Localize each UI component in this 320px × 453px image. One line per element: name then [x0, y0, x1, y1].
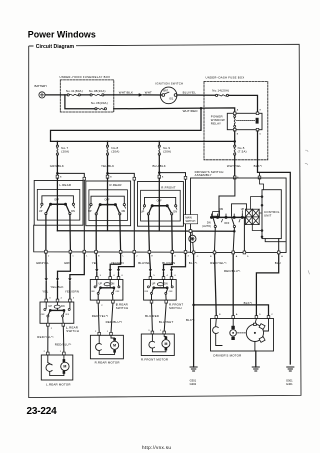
svg-text:DN: DN — [164, 283, 168, 286]
svg-text:5: 5 — [73, 298, 75, 300]
svg-text:OFF: OFF — [169, 291, 174, 293]
driver's switch contacts — [211, 211, 244, 228]
connector pins row — [45, 250, 187, 253]
relay pin B — [233, 128, 236, 131]
off bracket R.REAR — [91, 196, 124, 203]
L.REAR door switch box — [40, 302, 74, 323]
connector arrow col2 bypass — [117, 269, 120, 272]
switch contacts R.REAR — [106, 203, 108, 205]
svg-text:WHT/RED: WHT/RED — [183, 109, 198, 113]
fuse No.41(80A) — [67, 94, 80, 96]
svg-text:C: C — [197, 256, 199, 258]
svg-text:UP: UP — [88, 210, 92, 213]
door switch pins col2 — [96, 277, 120, 280]
svg-text:B: B — [237, 134, 239, 136]
R.FRONT motor M — [164, 334, 166, 336]
svg-text:B: B — [60, 177, 62, 179]
node junction fuse8 branch — [106, 172, 109, 175]
svg-text:4: 4 — [61, 298, 63, 300]
svg-text:OFF: OFF — [157, 200, 162, 203]
wire upper bus from WHT/RED junction — [51, 108, 235, 141]
frame bracket around circuit diagram — [29, 44, 301, 397]
off bracket R.FRONT — [145, 197, 176, 204]
svg-text:OFF: OFF — [116, 291, 121, 293]
fuse No.5 — [234, 145, 236, 155]
svg-text:3: 3 — [148, 330, 150, 332]
svg-text:B: B — [219, 314, 221, 316]
svg-text:B: B — [98, 255, 100, 257]
wire branch down inside under-hood box — [65, 95, 95, 109]
svg-text:(20A): (20A) — [61, 150, 69, 154]
driver's motor pins — [215, 316, 270, 319]
wire col3 left output down — [149, 254, 150, 278]
main switch — [192, 231, 193, 251]
svg-text:D: D — [260, 134, 262, 136]
svg-text:OFF: OFF — [65, 314, 70, 316]
svg-text:RED/BLU*¹: RED/BLU*¹ — [224, 269, 241, 273]
pin on bypass1 — [83, 177, 86, 180]
svg-text:6: 6 — [122, 275, 124, 277]
door switch pins col3 — [149, 277, 173, 280]
connector arrow col2 mid — [109, 269, 112, 272]
driver's switch bar — [211, 216, 246, 218]
svg-text:No.38(30A): No.38(30A) — [91, 101, 108, 105]
svg-text:1: 1 — [60, 351, 62, 353]
svg-text:BLU/YEL: BLU/YEL — [183, 91, 197, 95]
svg-text:OFF: OFF — [224, 222, 229, 225]
svg-text:DN: DN — [71, 210, 75, 213]
svg-text:6: 6 — [175, 275, 177, 277]
connector arrow col3 mid — [162, 269, 165, 272]
svg-text:R.REAR: R.REAR — [110, 183, 122, 187]
pin B box1 — [56, 175, 59, 178]
svg-text:BLU/YEL: BLU/YEL — [138, 261, 150, 265]
svg-text:R.FRONT: R.FRONT — [161, 185, 175, 189]
svg-text:UP: UP — [152, 283, 156, 286]
fuse No.14(20A) — [216, 94, 229, 96]
svg-text:GRN/BLK: GRN/BLK — [50, 164, 64, 168]
pin on bypass3 — [184, 176, 187, 179]
svg-text:OFF: OFF — [105, 199, 110, 202]
svg-text:(AUTO): (AUTO) — [202, 225, 211, 228]
power window relay — [227, 113, 262, 129]
svg-text:D: D — [247, 256, 249, 258]
svg-text:2: 2 — [95, 331, 97, 333]
svg-text:BAT: BAT — [163, 90, 168, 93]
svg-text:YEL/BLK: YEL/BLK — [50, 285, 63, 289]
R.FRONT motor windings — [149, 334, 166, 352]
connector arrow col3 left — [149, 269, 152, 272]
svg-text:2: 2 — [101, 305, 103, 307]
switch contacts R.FRONT — [158, 205, 160, 207]
svg-text:WHT/BLK: WHT/BLK — [119, 91, 133, 95]
svg-text:2: 2 — [44, 351, 46, 353]
wire WHT/BLK to connector — [114, 94, 139, 96]
wire col1 bypass reroute — [70, 253, 84, 299]
svg-text:L.REAR: L.REAR — [59, 183, 71, 187]
svg-text:RED/YEL*¹: RED/YEL*¹ — [37, 335, 53, 339]
svg-text:1: 1 — [86, 255, 88, 257]
pin F — [233, 176, 236, 179]
relay contact arm — [234, 115, 236, 127]
svg-text:Power Windows: Power Windows — [28, 30, 96, 40]
svg-text:1: 1 — [72, 255, 74, 257]
svg-text:YEL/BLK: YEL/BLK — [101, 164, 114, 168]
svg-text:WHT/YEL: WHT/YEL — [227, 164, 242, 168]
driver's motor link (dashed) — [238, 332, 246, 334]
svg-text:UNDER–HOOD FUSE/RELAY BOX: UNDER–HOOD FUSE/RELAY BOX — [60, 75, 111, 79]
svg-text:RED/YEL*²: RED/YEL*² — [92, 314, 108, 318]
R.REAR motor box — [90, 335, 123, 359]
svg-text:DN: DN — [173, 210, 177, 213]
connector arrow col3 bypass — [170, 269, 173, 272]
fuse No.38(20A) — [80, 94, 113, 96]
svg-text:DRIVER'S MOTOR: DRIVER'S MOTOR — [213, 353, 241, 357]
svg-text:BLK*¹: BLK*¹ — [244, 301, 253, 305]
pin on assembly top for BLK — [258, 176, 261, 179]
ground G301/G302 — [190, 367, 197, 371]
L.REAR motor pins — [47, 352, 50, 355]
wire R.REAR switch outputs — [96, 215, 120, 252]
wire WHT/RED battery feed — [114, 108, 235, 112]
wire branch to bypass1 — [57, 173, 84, 251]
wire BLK branch to driver's motor — [194, 305, 269, 318]
wire BLU control unit to pin — [278, 239, 280, 252]
R.REAR motor pins — [98, 332, 101, 335]
svg-text:IG1: IG1 — [169, 97, 174, 100]
ignition switch — [160, 87, 177, 104]
svg-text:DN: DN — [220, 208, 224, 211]
R.FRONT door switch contacts — [150, 280, 171, 288]
control unit box — [262, 190, 281, 239]
fuse No.9 — [158, 141, 160, 176]
wire driver's switch outputs to pins — [215, 219, 245, 252]
svg-text:E: E — [260, 110, 262, 112]
svg-text:WHT: WHT — [145, 91, 152, 95]
resistor block (crossed) — [246, 209, 260, 224]
svg-text:G301: G301 — [190, 379, 197, 383]
svg-text:1: 1 — [107, 331, 109, 333]
svg-text:B: B — [110, 177, 112, 179]
node junction fuse9 branch — [158, 171, 161, 174]
battery symbol — [39, 92, 45, 98]
svg-text:OFF: OFF — [41, 314, 46, 316]
wire L.REAR switch outputs — [46, 215, 71, 252]
wire col1 mid reroute — [58, 253, 71, 299]
fuse No.8 — [106, 141, 108, 176]
wire col1 left output down — [45, 253, 47, 299]
svg-text:23-224: 23-224 — [27, 406, 58, 417]
wire RED/BLU to driver's motor — [232, 254, 234, 316]
L.REAR motor M — [63, 355, 65, 359]
under-dash fuse box (dashed) — [204, 81, 268, 159]
svg-text:2: 2 — [136, 255, 138, 257]
svg-text:1: 1 — [160, 330, 162, 332]
wire to resistor block — [232, 204, 247, 216]
switch contacts L.REAR — [56, 203, 58, 205]
wire BLK main switch to ground G301 — [193, 254, 195, 367]
svg-text:B: B — [162, 177, 164, 179]
wire col3 bypass reroute — [172, 254, 186, 278]
wire feed F to driver's switch — [219, 180, 235, 217]
svg-text:UP: UP — [39, 210, 43, 213]
node junction fuse7 branch — [56, 172, 59, 175]
wire branch to bypass3 — [159, 173, 185, 252]
wire BLK stub into assembly — [259, 172, 261, 176]
ground G501/G401 — [287, 367, 294, 371]
wire control unit bottom to assembly edge — [265, 239, 285, 242]
relay pin E — [256, 112, 259, 115]
svg-text:UNIT: UNIT — [264, 213, 272, 217]
R.REAR motor windings — [96, 335, 115, 354]
wire WHT/YEL relay to assembly pin F — [234, 155, 236, 176]
connector arrow col2 left — [95, 269, 98, 272]
under-hood fuse/relay box (dashed) — [60, 80, 114, 112]
svg-text:A: A — [281, 255, 283, 258]
svg-text:SWITCH: SWITCH — [66, 329, 79, 333]
svg-text:http://vnx.su: http://vnx.su — [142, 445, 171, 450]
svg-text:2: 2 — [48, 255, 50, 257]
svg-text:OFF: OFF — [54, 198, 59, 201]
connector row line — [34, 225, 191, 252]
svg-text:D: D — [174, 255, 176, 257]
ground driver's motor — [252, 367, 259, 371]
svg-text:UP: UP — [48, 305, 52, 308]
node junction bus to relay B wire — [233, 140, 236, 143]
svg-text:SWITCH: SWITCH — [185, 220, 195, 223]
connector arrow col1 bypass — [68, 278, 71, 281]
svg-text:ASSEMBLY: ASSEMBLY — [195, 173, 212, 177]
driver's motor box — [211, 319, 274, 352]
wire R.FRONT switch outputs — [148, 215, 172, 252]
svg-text:3: 3 — [188, 255, 190, 257]
control unit pins — [261, 196, 263, 238]
svg-text:2: 2 — [51, 328, 53, 330]
connector arrow — [139, 93, 144, 96]
svg-text:RELAY: RELAY — [211, 122, 221, 126]
fuse No.38(30A) — [95, 108, 107, 110]
wire col2 left output down — [95, 253, 98, 277]
wire BLU reroute to driver's motor — [256, 254, 278, 316]
svg-text:D: D — [259, 314, 261, 316]
node junction BLK branch — [192, 304, 195, 307]
svg-text:(20A): (20A) — [163, 150, 171, 154]
svg-text:5: 5 — [100, 275, 102, 277]
fuse No.7 — [56, 141, 58, 176]
svg-text:RED/BLU*²: RED/BLU*² — [106, 320, 123, 324]
wire feed into R.REAR switch — [107, 178, 109, 231]
svg-text:GRN: GRN — [64, 261, 70, 265]
svg-text:L.REAR MOTOR: L.REAR MOTOR — [46, 382, 71, 386]
relay pin D — [256, 128, 259, 131]
connector arrow col1 left — [45, 278, 48, 281]
pin B box3 — [158, 175, 161, 178]
wires to R.REAR motor — [98, 303, 113, 333]
svg-text:BLU/BLK: BLU/BLK — [153, 164, 166, 168]
svg-text:IGNITION SWITCH: IGNITION SWITCH — [155, 82, 183, 86]
svg-text:4: 4 — [113, 275, 115, 277]
svg-text:R.REAR MOTOR: R.REAR MOTOR — [95, 361, 120, 365]
svg-text:BLU/WHT: BLU/WHT — [159, 320, 174, 324]
svg-text:(7.5A): (7.5A) — [238, 149, 247, 153]
wire fuse14 to relay pin E — [229, 95, 258, 112]
R.REAR master switch box — [86, 181, 131, 226]
door switch pins col1 — [45, 299, 71, 302]
wire col3 mid reroute — [164, 254, 173, 278]
svg-text:M: M — [113, 344, 116, 348]
pin letters row — [48, 255, 190, 257]
R.FRONT motor box — [141, 334, 174, 356]
svg-text:UNDER–DASH FUSE BOX: UNDER–DASH FUSE BOX — [206, 75, 245, 79]
svg-text:YEL: YEL — [42, 289, 48, 293]
driver's switch assembly box — [191, 178, 287, 253]
driver's motor commutator — [255, 319, 269, 332]
R.REAR door switch box — [90, 280, 123, 301]
svg-text:BLK*¹: BLK*¹ — [254, 164, 263, 168]
svg-text:A: A — [236, 255, 238, 258]
wire relay B down through fuse No.5 — [234, 131, 236, 145]
wire feed into R.FRONT switch — [158, 178, 160, 231]
R.FRONT motor pins — [151, 331, 154, 334]
wire feed into L.REAR switch — [56, 178, 58, 231]
svg-text:RED/BLU*¹: RED/BLU*¹ — [55, 343, 72, 347]
svg-text:BLU: BLU — [275, 261, 281, 265]
svg-text:SWITCH: SWITCH — [116, 306, 129, 310]
svg-text:No.38(20A): No.38(20A) — [89, 89, 106, 93]
R.FRONT door switch output pins — [152, 294, 167, 301]
R.FRONT master switch box — [138, 182, 184, 227]
svg-text:B: B — [210, 256, 212, 258]
svg-text:4: 4 — [167, 275, 169, 277]
wire control unit to resistor block — [251, 197, 262, 231]
wire WHT to ignition switch — [143, 94, 162, 96]
svg-text:R.FRONT MOTOR: R.FRONT MOTOR — [141, 357, 168, 361]
svg-text:BLK*¹: BLK*¹ — [186, 318, 195, 322]
pin on bypass2 — [133, 177, 136, 180]
svg-text:DN: DN — [122, 210, 126, 213]
assembly bottom pins — [192, 251, 280, 254]
main switch label — [184, 215, 198, 224]
svg-text:OFF: OFF — [91, 291, 96, 293]
wires to L.REAR motor — [48, 326, 64, 352]
svg-text:SWITCH: SWITCH — [169, 306, 182, 310]
page curl marks right edge — [305, 150, 309, 274]
svg-text:C: C — [271, 314, 273, 316]
node junction common line driver switch — [233, 230, 236, 233]
svg-text:MAIN: MAIN — [185, 216, 191, 219]
relay coil — [256, 118, 259, 124]
L.REAR door switch contacts — [46, 302, 70, 310]
svg-text:DN: DN — [61, 305, 65, 308]
svg-text:A: A — [237, 109, 239, 112]
svg-text:G501: G501 — [286, 379, 293, 383]
R.REAR motor M — [111, 335, 115, 338]
L.REAR master switch box — [34, 181, 83, 226]
L.REAR door switch output pins — [48, 317, 63, 325]
svg-text:E: E — [151, 255, 153, 257]
wires to R.FRONT motor — [152, 303, 167, 331]
svg-text:UP: UP — [141, 210, 145, 213]
svg-text:UP: UP — [99, 283, 103, 286]
wire control unit to BLK pin — [260, 180, 264, 190]
node junction WHT/RED to bus — [200, 107, 203, 110]
svg-text:M: M — [164, 342, 167, 346]
relay pin A — [233, 112, 236, 115]
wire branch to bypass2 — [108, 173, 135, 251]
svg-text:No.41(80A): No.41(80A) — [66, 89, 83, 93]
svg-text:G302: G302 — [190, 382, 197, 386]
svg-text:Circuit Diagram: Circuit Diagram — [36, 44, 75, 50]
wire battery to under-hood box — [45, 94, 67, 96]
svg-text:RED/YEL*¹: RED/YEL*¹ — [210, 261, 226, 265]
svg-text:OFF: OFF — [144, 291, 149, 293]
svg-text:DN: DN — [111, 283, 115, 286]
R.REAR door switch output pins — [98, 294, 113, 301]
svg-text:(20A): (20A) — [111, 150, 119, 154]
svg-text:3: 3 — [49, 298, 51, 300]
driver's motor winding — [213, 319, 222, 346]
svg-text:G401: G401 — [286, 382, 293, 386]
svg-text:M: M — [63, 365, 66, 369]
L.REAR motor windings — [46, 355, 64, 376]
relay link (dashed) — [237, 119, 255, 121]
svg-text:A: A — [236, 313, 238, 316]
wire BLU/YEL ignition to under-dash fuse box — [177, 94, 215, 96]
wire col2 mid reroute — [110, 253, 120, 277]
svg-text:GRN/YEL: GRN/YEL — [36, 261, 49, 265]
svg-text:L: L — [123, 255, 125, 257]
svg-text:5: 5 — [153, 275, 155, 277]
L.REAR motor box — [41, 355, 73, 380]
driver's motor armature — [232, 319, 234, 326]
wire col2 bypass reroute — [119, 253, 135, 277]
wire RED/YEL to driver's motor — [215, 254, 217, 316]
wire driver's motor to ground — [255, 351, 257, 367]
pin B box2 — [106, 175, 109, 178]
svg-text:YEL/GRN: YEL/GRN — [65, 289, 79, 293]
svg-text:No.14(20A): No.14(20A) — [212, 89, 229, 93]
wire BLK relay D to ground G501 — [258, 131, 291, 364]
assembly pin letters — [197, 255, 284, 258]
off bracket L.REAR — [42, 196, 74, 203]
wire common line to main switch — [57, 230, 234, 233]
svg-text:BATTERY: BATTERY — [35, 84, 48, 88]
wire colour labels under row — [36, 261, 175, 265]
R.REAR door switch contacts — [97, 280, 119, 288]
connector arrow col1 mid — [56, 278, 59, 281]
R.FRONT door switch box — [144, 280, 177, 301]
pin on assembly left edge — [189, 230, 192, 233]
